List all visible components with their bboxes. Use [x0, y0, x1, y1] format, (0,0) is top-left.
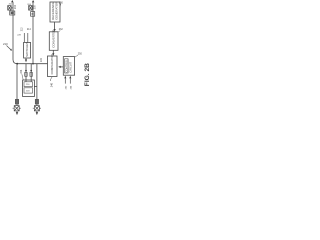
svg-text:222: 222: [40, 57, 43, 62]
svg-text:FIG. 2B: FIG. 2B: [84, 63, 91, 86]
svg-text:210: 210: [3, 42, 8, 46]
svg-text:224: 224: [21, 69, 23, 74]
svg-text:202: 202: [9, 4, 13, 6]
svg-text:204: 204: [15, 4, 17, 9]
svg-text:GENERATOR: GENERATOR: [54, 2, 58, 20]
svg-text:CIRCUIT: CIRCUIT: [69, 61, 73, 72]
svg-text:240: 240: [50, 82, 54, 87]
svg-text:232: 232: [59, 28, 64, 31]
svg-text:208: 208: [34, 5, 36, 10]
svg-text:244: 244: [71, 85, 73, 89]
svg-text:214: 214: [27, 29, 32, 31]
svg-text:228: 228: [17, 35, 21, 37]
svg-text:230: 230: [59, 1, 64, 4]
svg-text:CONTROL: CONTROL: [64, 59, 68, 73]
svg-text:218: 218: [26, 90, 30, 92]
svg-text:SWITCHES: SWITCHES: [25, 42, 29, 57]
svg-text:216: 216: [26, 84, 30, 86]
svg-text:212: 212: [22, 27, 24, 32]
svg-text:242: 242: [66, 85, 68, 89]
svg-text:COMPARATOR: COMPARATOR: [50, 54, 54, 74]
svg-text:CONVERTER: CONVERTER: [52, 30, 56, 48]
svg-text:250: 250: [78, 53, 83, 56]
